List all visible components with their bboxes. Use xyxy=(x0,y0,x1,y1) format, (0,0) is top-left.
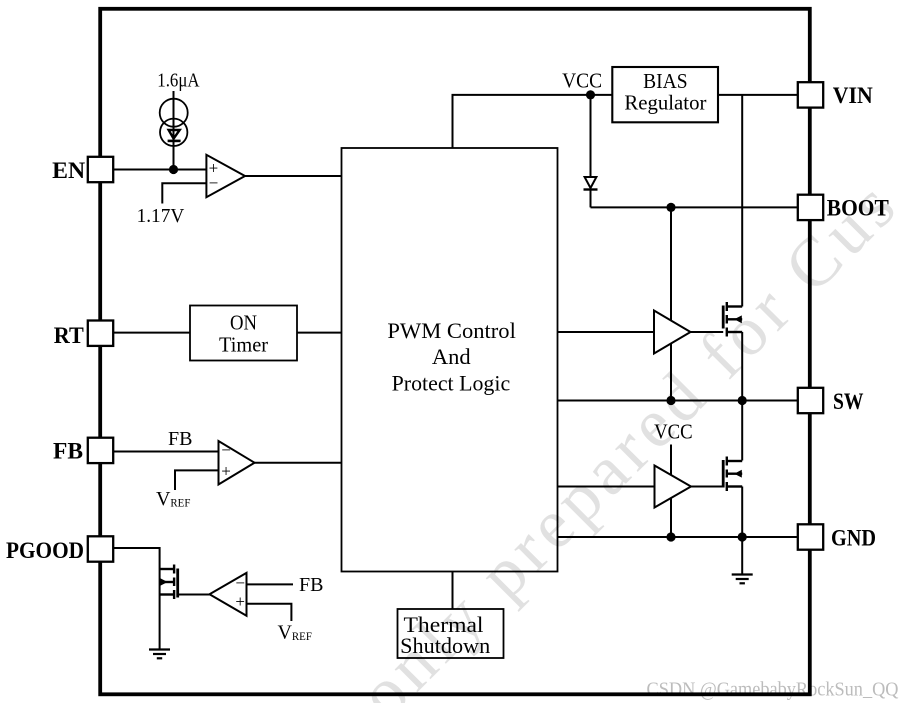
wire ON timer to PWM box xyxy=(297,332,342,334)
wire VIN branch to HS mosfet drain xyxy=(741,95,743,307)
block BIAS Regulator xyxy=(612,67,718,122)
wire LS driver output to gate xyxy=(691,486,723,488)
node EN junction xyxy=(169,165,178,174)
wire VCC node to diode xyxy=(590,95,592,177)
svg-text:CSDN @GamebabyRockSun_QQ: CSDN @GamebabyRockSun_QQ xyxy=(646,679,899,701)
block PWM Control xyxy=(341,148,557,572)
svg-text:VCC: VCC xyxy=(562,69,602,93)
ground at LS mosfet xyxy=(732,575,753,584)
node dots xyxy=(169,90,747,541)
wire BOOT line xyxy=(591,206,799,208)
op-amp PGOOD comparator xyxy=(209,573,246,616)
svg-text:−: − xyxy=(209,173,219,192)
wires layer xyxy=(113,91,798,649)
outer border xyxy=(100,9,810,695)
pin GND xyxy=(798,524,823,549)
wire PWM to LS driver input xyxy=(557,486,654,488)
wire BOOT to SW rail through HS driver xyxy=(670,207,672,400)
svg-text:+: + xyxy=(221,461,231,480)
wire current source vertical xyxy=(173,91,175,169)
svg-text:−: − xyxy=(235,573,245,592)
pin PGOOD xyxy=(88,536,113,561)
wire LS mosfet source rail to GND xyxy=(741,487,743,537)
wire PGOOD comparator to mosfet gate xyxy=(178,593,210,595)
wire HS driver output to gate xyxy=(691,331,724,333)
op-amp FB comparator xyxy=(218,441,254,485)
svg-text:And: And xyxy=(432,344,471,369)
wire RT pin to ON timer xyxy=(113,332,190,334)
svg-text:Regulator: Regulator xyxy=(624,91,706,115)
svg-text:FB: FB xyxy=(168,428,192,450)
wire diode to BOOT line xyxy=(590,190,592,208)
wire PGOOD pin to mosfet drain xyxy=(113,548,159,569)
wire VREF to FB comparator plus xyxy=(175,470,218,490)
wire GND line xyxy=(557,536,798,538)
pin squares xyxy=(88,82,823,562)
transistor HS mosfet xyxy=(723,302,742,337)
transistor LS mosfet xyxy=(723,457,742,492)
wire PWM bottom to thermal shutdown xyxy=(451,572,453,610)
wire VCC to LS driver rail to GND xyxy=(670,445,672,537)
svg-text:REF: REF xyxy=(292,631,312,643)
gate driver HS xyxy=(654,311,691,354)
svg-text:1.17V: 1.17V xyxy=(137,206,185,227)
op-amp EN comparator xyxy=(206,155,245,197)
svg-text:Timer: Timer xyxy=(219,332,268,356)
wire VREF to PGOOD comparator plus xyxy=(246,604,291,621)
wire PWM to HS driver input xyxy=(558,331,655,333)
gate driver LS xyxy=(654,466,691,508)
svg-text:SW: SW xyxy=(833,389,864,414)
wire SW to LS mosfet drain rail xyxy=(741,401,743,461)
wire GND to ground symbol xyxy=(741,537,743,574)
wire PGOOD mosfet rail to ground xyxy=(159,569,161,649)
svg-text:GND: GND xyxy=(831,526,876,551)
pin BOOT xyxy=(798,195,823,220)
svg-text:V: V xyxy=(277,621,292,643)
wire FB to PGOOD comparator minus xyxy=(246,583,293,585)
svg-text:EN: EN xyxy=(52,158,85,183)
svg-text:FB: FB xyxy=(299,574,323,596)
pin VIN xyxy=(798,82,823,107)
wire HS mosfet source rail to SW xyxy=(741,332,743,401)
svg-text:VIN: VIN xyxy=(833,83,873,108)
svg-text:PWM Control: PWM Control xyxy=(387,318,516,343)
wire PWM top to VCC node to VIN xyxy=(453,95,799,148)
pin FB xyxy=(88,438,113,463)
node SW junction right xyxy=(738,396,747,405)
node VCC junction xyxy=(586,90,595,99)
svg-text:−: − xyxy=(221,441,231,460)
svg-text:FB: FB xyxy=(53,438,83,463)
svg-text:1.6μA: 1.6μA xyxy=(157,70,199,91)
wire 1.17V to EN comparator minus xyxy=(162,183,206,203)
box texts xyxy=(219,69,706,658)
svg-text:+: + xyxy=(235,592,245,611)
svg-text:Protect Logic: Protect Logic xyxy=(392,370,511,395)
svg-text:PGOOD: PGOOD xyxy=(6,538,84,563)
current source I1 xyxy=(160,99,188,146)
svg-text:V: V xyxy=(156,488,171,510)
block ON Timer xyxy=(190,305,297,360)
node BOOT junction xyxy=(666,203,675,212)
wire FB comparator output xyxy=(254,462,341,464)
node SW junction left xyxy=(666,396,675,405)
svg-text:RT: RT xyxy=(54,323,84,348)
block Thermal Shutdown xyxy=(397,609,503,658)
wire EN comparator output xyxy=(245,175,342,177)
transistor PGOOD mosfet xyxy=(160,564,178,599)
op-amp input signs xyxy=(209,158,245,611)
pin SW xyxy=(798,388,823,413)
ground at PGOOD mosfet xyxy=(149,649,170,658)
watermark diagonal xyxy=(344,164,902,703)
wire SW line xyxy=(557,400,798,402)
wire EN pin to comparator xyxy=(113,168,206,170)
pin RT xyxy=(88,320,113,345)
diode D1 xyxy=(584,177,598,190)
pin EN xyxy=(88,157,113,182)
node GND junction right xyxy=(738,532,747,541)
wire FB pin to comparator xyxy=(113,450,218,452)
svg-text:ON: ON xyxy=(230,310,257,334)
svg-text:REF: REF xyxy=(170,497,190,509)
node GND junction left xyxy=(666,532,675,541)
